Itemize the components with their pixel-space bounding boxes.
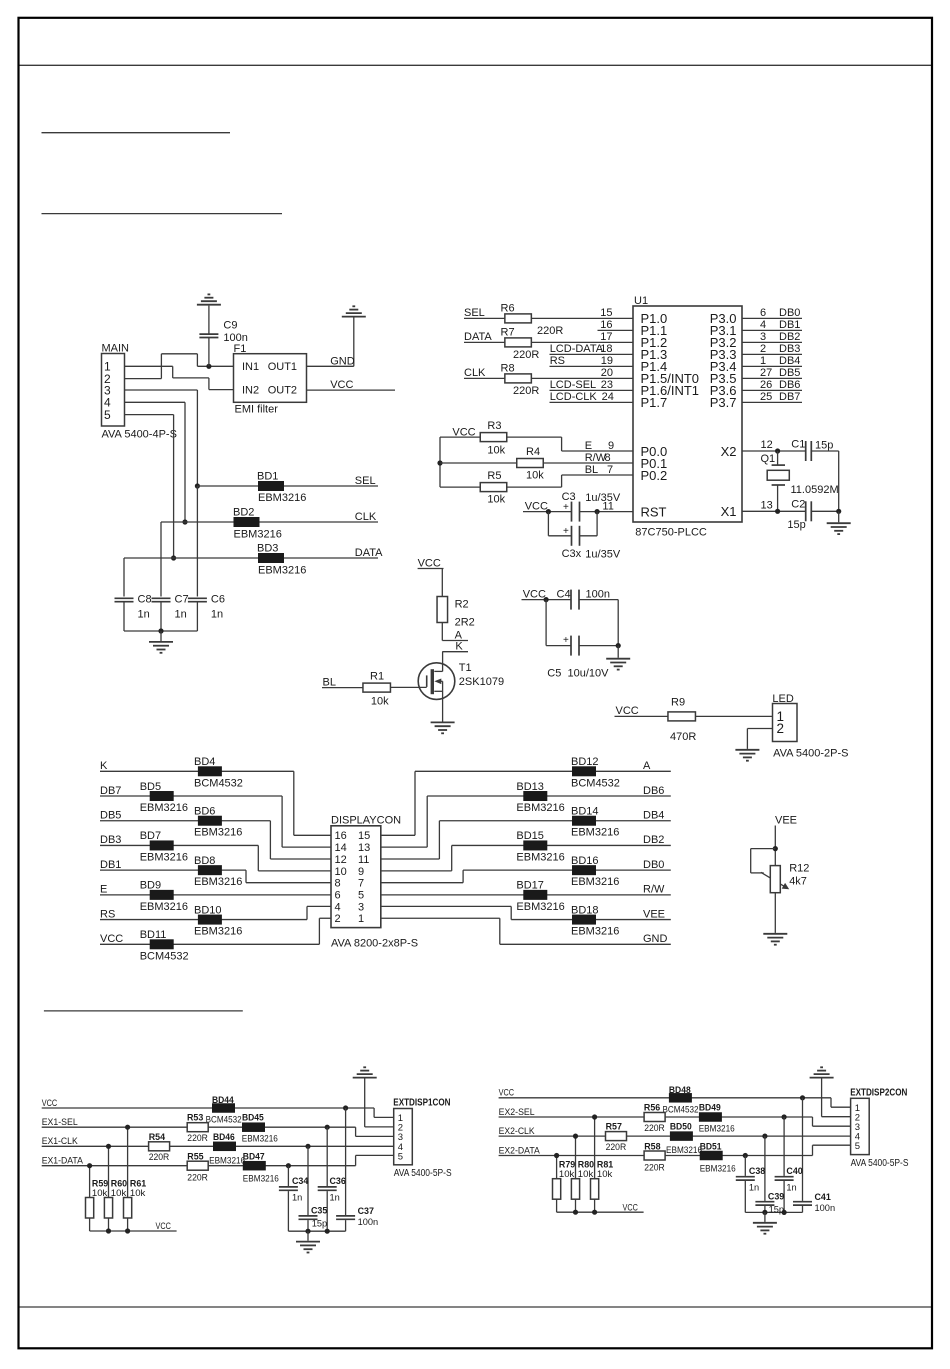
svg-text:LCD-CLK: LCD-CLK [550,391,598,403]
svg-text:5: 5 [855,1141,860,1152]
svg-text:1u/35V: 1u/35V [585,492,621,504]
svg-text:1n: 1n [749,1182,759,1193]
svg-text:EX1-DATA: EX1-DATA [42,1156,84,1167]
svg-text:10k: 10k [597,1169,613,1180]
svg-text:C37: C37 [358,1206,374,1217]
svg-text:EBM3216: EBM3216 [140,851,188,863]
svg-text:2SK1079: 2SK1079 [459,676,504,688]
svg-text:A: A [455,630,463,642]
svg-text:EBM3216: EBM3216 [194,926,242,938]
svg-text:20: 20 [601,367,613,379]
svg-text:1n: 1n [138,609,150,621]
svg-text:BCM4532: BCM4532 [663,1104,699,1115]
svg-text:220R: 220R [537,325,563,337]
svg-text:BD6: BD6 [194,806,215,818]
svg-text:EXTDISP2CON: EXTDISP2CON [850,1087,907,1098]
svg-text:EX1-SEL: EX1-SEL [42,1117,78,1128]
svg-text:GND: GND [330,355,355,367]
svg-text:AVA 5400-2P-S: AVA 5400-2P-S [773,748,848,760]
svg-text:C3x: C3x [562,548,582,560]
svg-text:100n: 100n [586,589,610,601]
svg-text:BD51: BD51 [700,1141,722,1152]
svg-text:C1: C1 [791,439,805,451]
svg-text:DB7: DB7 [100,785,121,797]
svg-text:C35: C35 [311,1206,328,1217]
svg-text:R4: R4 [526,446,540,458]
svg-text:BD5: BD5 [140,781,161,793]
svg-text:10k: 10k [130,1188,146,1199]
svg-text:DB4: DB4 [779,355,800,367]
svg-text:IN2: IN2 [242,385,259,397]
svg-text:GND: GND [643,933,668,945]
svg-text:EBM3216: EBM3216 [209,1155,245,1166]
svg-text:EBM3216: EBM3216 [140,901,188,913]
svg-text:R56: R56 [644,1103,660,1114]
svg-text:DISPLAYCON: DISPLAYCON [331,814,401,826]
svg-text:X2: X2 [721,444,737,459]
svg-text:23: 23 [601,379,613,391]
svg-text:MAIN: MAIN [102,343,130,355]
svg-text:9: 9 [608,440,614,452]
svg-text:DB2: DB2 [779,331,800,343]
svg-text:3: 3 [760,331,766,343]
svg-text:5: 5 [358,889,364,901]
svg-text:EBM3216: EBM3216 [516,851,564,863]
svg-text:BD9: BD9 [140,880,161,892]
svg-text:BD47: BD47 [243,1152,265,1163]
svg-text:BCM4532: BCM4532 [194,777,243,789]
svg-text:C34: C34 [292,1176,309,1187]
svg-text:9: 9 [358,866,364,878]
svg-text:17: 17 [600,331,612,343]
svg-text:BL: BL [323,676,336,688]
svg-text:10: 10 [335,866,347,878]
svg-text:25: 25 [760,391,772,403]
svg-text:EBM3216: EBM3216 [571,926,619,938]
svg-text:87C750-PLCC: 87C750-PLCC [635,527,707,539]
svg-text:6: 6 [335,889,341,901]
svg-text:VCC: VCC [525,501,548,513]
svg-text:R1: R1 [370,670,384,682]
svg-text:OUT2: OUT2 [268,385,297,397]
svg-text:2: 2 [777,721,785,736]
svg-text:BD14: BD14 [571,806,599,818]
svg-text:EX2-CLK: EX2-CLK [499,1126,536,1137]
svg-text:VCC: VCC [156,1221,172,1232]
svg-text:BD4: BD4 [194,756,215,768]
svg-text:BD8: BD8 [194,855,215,867]
svg-text:220R: 220R [513,385,539,397]
svg-text:DB6: DB6 [779,379,800,391]
svg-text:15p: 15p [769,1204,784,1215]
svg-text:15p: 15p [815,440,833,452]
svg-text:+: + [563,526,569,537]
svg-text:C7: C7 [175,594,189,606]
svg-text:2: 2 [760,343,766,355]
svg-text:5: 5 [104,408,111,422]
svg-text:BD49: BD49 [699,1103,721,1114]
svg-text:Q1: Q1 [761,453,776,465]
svg-text:EBM3216: EBM3216 [242,1134,278,1145]
svg-text:BD7: BD7 [140,830,161,842]
svg-text:VCC: VCC [623,1202,639,1213]
svg-text:C39: C39 [768,1191,784,1202]
svg-text:100n: 100n [815,1203,836,1214]
svg-text:EBM3216: EBM3216 [516,901,564,913]
svg-text:P3.7: P3.7 [710,395,737,410]
svg-text:16: 16 [335,830,347,842]
svg-text:BD18: BD18 [571,904,599,916]
svg-text:BD10: BD10 [194,904,222,916]
svg-text:11.0592M: 11.0592M [791,484,839,496]
svg-text:10u/10V: 10u/10V [568,668,610,680]
svg-text:R/W: R/W [585,452,607,464]
svg-text:VEE: VEE [775,815,797,827]
svg-text:BD11: BD11 [140,929,167,941]
svg-text:EBM3216: EBM3216 [243,1174,279,1185]
svg-text:BD46: BD46 [213,1132,235,1143]
svg-text:BD3: BD3 [257,543,278,555]
svg-text:EBM3216: EBM3216 [571,876,619,888]
svg-text:R58: R58 [644,1141,660,1152]
svg-text:1n: 1n [211,609,223,621]
svg-text:EBM3216: EBM3216 [194,827,242,839]
svg-text:3: 3 [358,901,364,913]
svg-text:DATA: DATA [464,331,492,343]
svg-text:E: E [100,884,107,896]
svg-text:16: 16 [600,319,612,331]
svg-text:220R: 220R [644,1123,665,1134]
svg-text:6: 6 [760,307,766,319]
svg-text:15p: 15p [312,1219,327,1230]
svg-text:13: 13 [358,842,370,854]
svg-text:R8: R8 [501,363,515,375]
svg-text:7: 7 [358,878,364,890]
svg-text:IN1: IN1 [242,361,259,373]
svg-text:AVA 8200-2x8P-S: AVA 8200-2x8P-S [331,938,418,950]
svg-text:1n: 1n [292,1193,302,1204]
svg-text:4k7: 4k7 [789,876,807,888]
svg-text:C38: C38 [749,1166,765,1177]
svg-text:BD13: BD13 [516,781,544,793]
svg-text:1: 1 [760,355,766,367]
svg-text:R2: R2 [455,599,469,611]
svg-text:DATA: DATA [355,547,383,559]
svg-text:C36: C36 [330,1176,346,1187]
svg-text:BCM4532: BCM4532 [571,777,620,789]
svg-text:RS: RS [550,355,565,367]
svg-text:26: 26 [760,379,772,391]
svg-text:27: 27 [760,367,772,379]
svg-text:RST: RST [641,504,667,519]
svg-text:C9: C9 [223,320,237,332]
svg-text:F1: F1 [234,343,247,355]
svg-text:8: 8 [335,878,341,890]
svg-text:R5: R5 [487,470,501,482]
svg-text:EBM3216: EBM3216 [666,1145,702,1156]
svg-text:R6: R6 [501,303,515,315]
svg-text:R53: R53 [187,1113,203,1124]
svg-text:EBM3216: EBM3216 [258,565,306,577]
svg-text:EBM3216: EBM3216 [699,1123,735,1134]
svg-text:BD1: BD1 [257,471,278,483]
svg-text:220R: 220R [149,1152,170,1163]
svg-text:C4: C4 [557,589,571,601]
svg-text:P0.2: P0.2 [641,468,668,483]
svg-text:BD44: BD44 [212,1095,234,1106]
svg-text:18: 18 [600,343,612,355]
svg-text:11: 11 [358,854,369,866]
svg-text:220R: 220R [513,349,539,361]
svg-text:RS: RS [100,908,115,920]
svg-text:LED: LED [772,693,793,705]
svg-text:EX2-DATA: EX2-DATA [499,1145,541,1156]
svg-text:VCC: VCC [616,705,639,717]
svg-text:220R: 220R [187,1133,208,1144]
svg-text:DB3: DB3 [779,343,800,355]
svg-text:1n: 1n [330,1193,340,1204]
svg-text:EXTDISP1CON: EXTDISP1CON [393,1098,450,1109]
svg-text:EBM3216: EBM3216 [571,827,619,839]
svg-text:EX2-SEL: EX2-SEL [499,1107,535,1118]
svg-text:BL: BL [585,464,598,476]
svg-text:12: 12 [761,439,773,451]
svg-text:C5: C5 [547,668,561,680]
svg-text:R12: R12 [789,863,809,875]
svg-text:EBM3216: EBM3216 [700,1163,736,1174]
svg-text:1: 1 [358,913,364,925]
svg-text:1n: 1n [175,609,187,621]
svg-text:470R: 470R [670,731,696,743]
svg-text:19: 19 [601,355,613,367]
svg-text:CLK: CLK [355,511,377,523]
svg-text:T1: T1 [459,662,472,674]
svg-text:13: 13 [761,500,773,512]
svg-text:EBM3216: EBM3216 [516,802,564,814]
svg-text:220R: 220R [187,1173,208,1184]
svg-text:EBM3216: EBM3216 [194,876,242,888]
svg-text:BD2: BD2 [233,507,254,519]
svg-text:2: 2 [335,913,341,925]
svg-text:AVA 5400-5P-S: AVA 5400-5P-S [851,1158,909,1169]
svg-text:EBM3216: EBM3216 [140,802,188,814]
svg-text:1n: 1n [786,1182,796,1193]
svg-text:12: 12 [335,854,347,866]
svg-text:E: E [585,440,592,452]
svg-text:BD12: BD12 [571,756,599,768]
svg-text:AVA 5400-4P-S: AVA 5400-4P-S [102,429,177,441]
svg-text:EMI filter: EMI filter [235,404,279,416]
svg-text:VCC: VCC [100,933,123,945]
svg-text:BCM4532: BCM4532 [206,1115,242,1126]
svg-text:VCC: VCC [418,558,441,570]
svg-text:BD48: BD48 [669,1085,691,1096]
svg-text:R9: R9 [671,697,685,709]
svg-text:BD16: BD16 [571,855,599,867]
svg-text:DB3: DB3 [100,834,121,846]
svg-text:100n: 100n [358,1217,379,1228]
svg-text:VCC: VCC [523,589,546,601]
svg-text:220R: 220R [644,1162,665,1173]
svg-text:A: A [643,760,651,772]
svg-text:DB1: DB1 [779,319,800,331]
svg-text:15p: 15p [787,519,805,531]
svg-text:DB6: DB6 [643,785,664,797]
svg-text:C8: C8 [138,594,152,606]
svg-text:U1: U1 [634,295,648,307]
svg-text:+: + [563,635,569,646]
svg-text:R55: R55 [187,1152,204,1163]
svg-text:10k: 10k [526,470,544,482]
svg-text:BD17: BD17 [516,880,544,892]
svg-text:BCM4532: BCM4532 [140,950,189,962]
svg-text:X1: X1 [721,504,737,519]
svg-text:SEL: SEL [355,475,376,487]
svg-text:R3: R3 [487,420,501,432]
svg-text:LCD-DATA: LCD-DATA [550,343,604,355]
svg-text:C2: C2 [791,499,805,511]
svg-text:+: + [563,502,569,513]
svg-text:BD45: BD45 [242,1113,264,1124]
svg-text:24: 24 [602,391,614,403]
svg-text:220R: 220R [606,1142,627,1153]
svg-text:R7: R7 [501,327,515,339]
svg-text:EBM3216: EBM3216 [258,492,306,504]
svg-text:4: 4 [335,901,341,913]
svg-text:R54: R54 [149,1132,166,1143]
svg-text:VEE: VEE [643,908,665,920]
svg-text:BD15: BD15 [516,830,544,842]
svg-text:AVA 5400-5P-S: AVA 5400-5P-S [394,1168,452,1179]
svg-text:4: 4 [760,319,766,331]
svg-text:VCC: VCC [330,379,353,391]
svg-text:DB2: DB2 [643,834,664,846]
svg-text:LCD-SEL: LCD-SEL [550,379,596,391]
svg-text:C6: C6 [211,594,225,606]
svg-text:DB5: DB5 [779,367,800,379]
svg-text:EX1-CLK: EX1-CLK [42,1136,79,1147]
svg-text:7: 7 [607,464,613,476]
svg-text:K: K [100,760,108,772]
svg-text:C3: C3 [562,491,576,503]
svg-text:C41: C41 [815,1192,832,1203]
svg-text:5: 5 [398,1151,403,1162]
svg-text:DB7: DB7 [779,391,800,403]
svg-text:14: 14 [335,842,347,854]
svg-text:BD50: BD50 [670,1122,692,1133]
svg-text:DB0: DB0 [643,859,664,871]
svg-text:DB1: DB1 [100,859,121,871]
svg-text:OUT1: OUT1 [268,361,297,373]
svg-text:SEL: SEL [464,307,485,319]
svg-text:DB5: DB5 [100,810,121,822]
svg-text:DB0: DB0 [779,307,800,319]
svg-text:VCC: VCC [42,1098,58,1109]
svg-text:10k: 10k [487,445,505,457]
svg-text:8: 8 [605,452,611,464]
svg-text:2R2: 2R2 [455,617,475,629]
svg-text:1u/35V: 1u/35V [585,549,621,561]
svg-text:10k: 10k [487,494,505,506]
svg-text:R/W: R/W [643,884,665,896]
svg-text:CLK: CLK [464,367,486,379]
svg-text:VCC: VCC [499,1088,515,1099]
svg-text:15: 15 [358,830,370,842]
svg-text:K: K [455,641,463,653]
svg-text:C40: C40 [786,1166,802,1177]
svg-text:EBM3216: EBM3216 [234,529,282,541]
svg-text:P1.7: P1.7 [641,395,668,410]
svg-text:15: 15 [600,307,612,319]
svg-text:R57: R57 [606,1122,622,1133]
svg-text:10k: 10k [371,696,389,708]
svg-text:DB4: DB4 [643,810,664,822]
